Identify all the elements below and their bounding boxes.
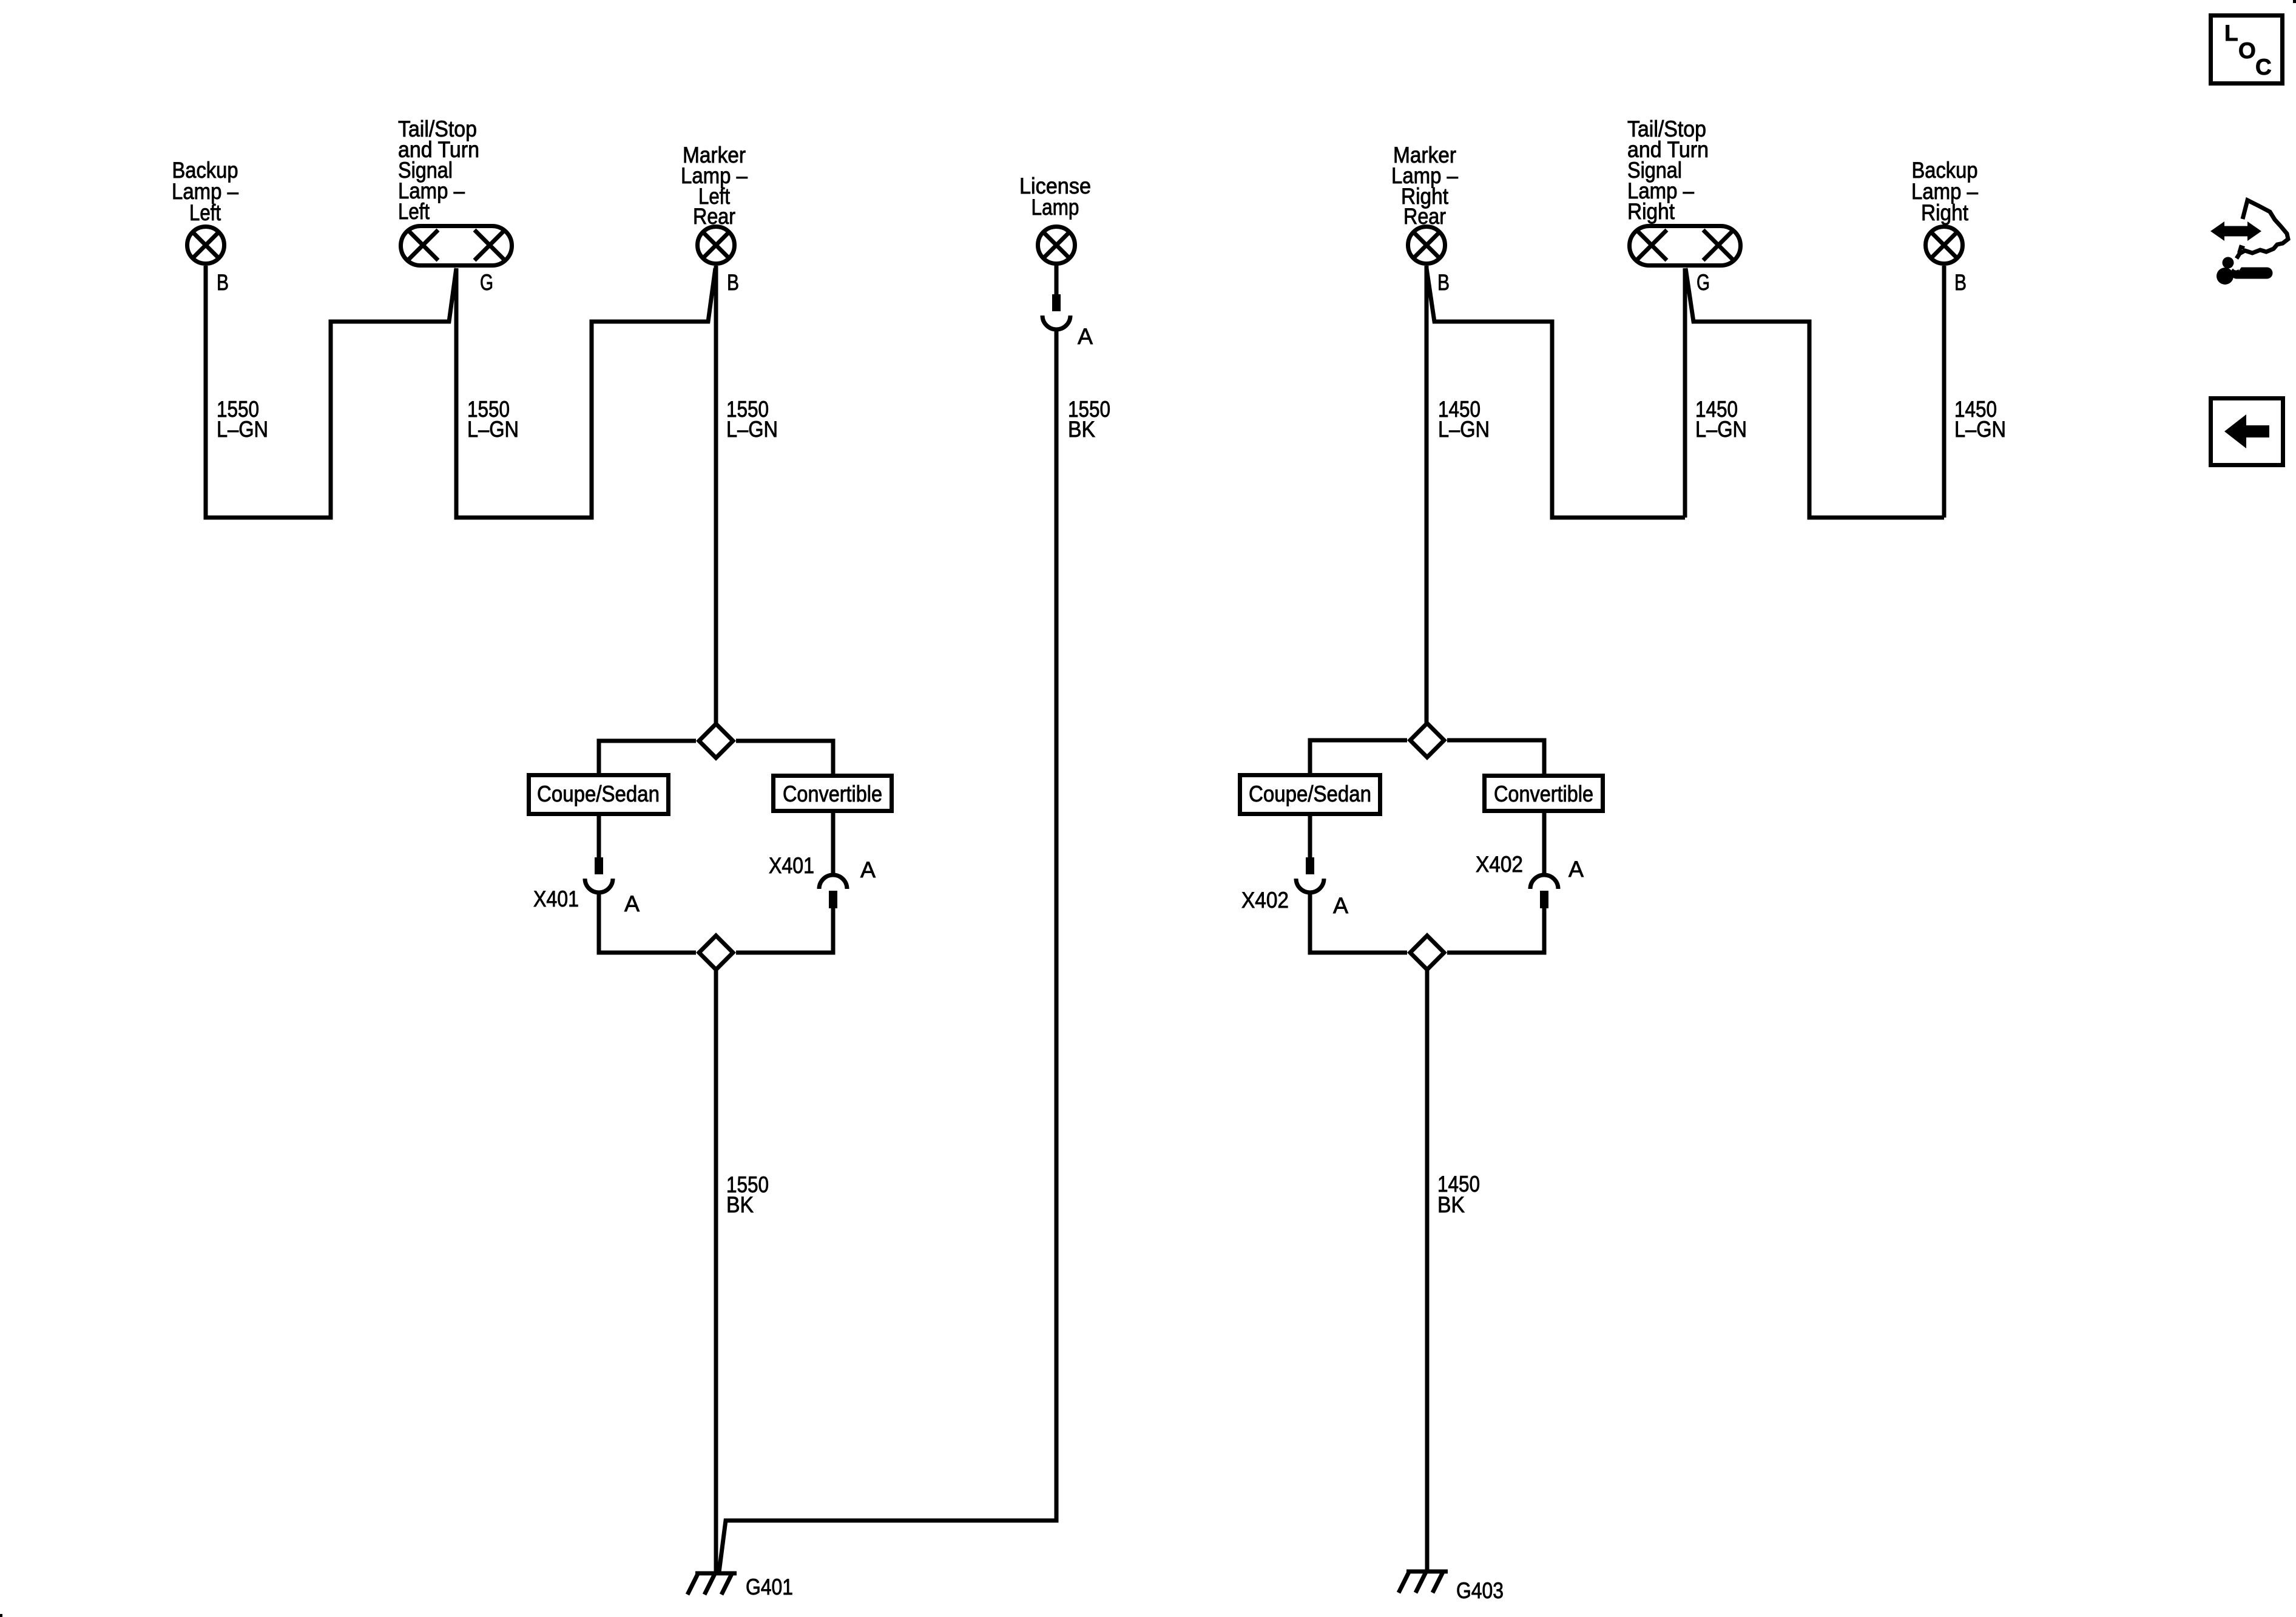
connector X402 terminal A (Convertible side) [1530, 875, 1558, 908]
svg-text:X401: X401 [769, 853, 814, 878]
svg-text:Lamp: Lamp [1032, 195, 1079, 220]
svg-text:G403: G403 [1456, 1578, 1504, 1603]
connector X401 terminal A (Coupe/Sedan side) [585, 857, 613, 893]
splice: top diamond (left group) [699, 724, 733, 758]
wire: X402 to bottom splice (right, convertible side) [1447, 908, 1544, 953]
splice: bottom diamond (left group) [699, 936, 733, 970]
wire: circuit 1550 L-GN from Tail/Stop Lamp-Left pin G to Marker Lamp pin B (step run) [456, 268, 715, 518]
branch option box: Coupe/Sedan (left) [529, 775, 669, 814]
svg-text:L: L [2224, 21, 2238, 46]
svg-text:A: A [1568, 857, 1584, 882]
svg-text:B: B [727, 270, 739, 295]
icon: LOC reference box [2211, 16, 2283, 84]
svg-text:B: B [1437, 270, 1450, 295]
wire: circuit 1550 BK from License Lamp pin A to ground G401 [719, 329, 1056, 1572]
svg-text:Coupe/Sedan: Coupe/Sedan [537, 781, 660, 806]
svg-text:Right: Right [1627, 199, 1675, 224]
lamp E3: Marker Lamp - Left Rear [698, 227, 735, 264]
label: Marker Lamp - Right Rear [1391, 143, 1458, 229]
value label: 1450 L-GN (backup right leg) [1954, 397, 2006, 442]
svg-text:Right: Right [1921, 200, 1969, 225]
label: Marker Lamp - Left Rear [681, 143, 748, 229]
svg-text:Convertible: Convertible [1494, 781, 1593, 806]
svg-text:Coupe/Sedan: Coupe/Sedan [1249, 781, 1371, 806]
label: Backup Lamp - Left [172, 158, 238, 225]
wire: circuit 1550 BK from bottom splice to ground G401 [714, 967, 718, 1573]
label: Tail/Stop and Turn Signal Lamp - Left [398, 116, 479, 224]
wire: splice to Coupe/Sedan branch (right) [1310, 740, 1407, 775]
svg-text:B: B [217, 270, 229, 295]
value label: 1450 L-GN (tail/stop right leg) [1695, 397, 1747, 442]
svg-text:L–GN: L–GN [1954, 417, 2006, 442]
wire: circuit 1550 L-GN from Marker Lamp-Left Rear pin B down to splice diamond [714, 266, 718, 726]
value label: 1550 L-GN (backup left leg) [217, 397, 268, 442]
lamp E1: Backup Lamp - Left [187, 227, 225, 264]
label: License Lamp [1019, 174, 1091, 220]
svg-text:A: A [1078, 324, 1093, 349]
svg-text:A: A [1333, 893, 1348, 918]
wire: X402 to bottom splice (right, coupe side) [1310, 893, 1407, 953]
splice: bottom diamond (right group) [1410, 936, 1444, 970]
wire: step run from Marker-Right pin B to Tail/Stop-Right pin G [1427, 268, 1685, 518]
wire: circuit 1450 L-GN Tail/Stop-Right pin G down leg [1683, 268, 1687, 518]
svg-text:B: B [1954, 270, 1967, 295]
value label: 1450 L-GN (marker right leg) [1438, 397, 1490, 442]
wire: Convertible box to connector X401 (left) [831, 813, 836, 876]
svg-text:Left: Left [398, 199, 430, 224]
svg-text:X402: X402 [1241, 888, 1289, 913]
lamp E4: License Lamp [1038, 227, 1075, 264]
wire: Coupe/Sedan box to connector X401 (left) [597, 816, 601, 859]
wire: circuit 1450 L-GN from Backup Lamp-Right pin B [1942, 266, 1947, 518]
svg-text:G: G [1697, 270, 1710, 295]
svg-text:O: O [2238, 38, 2256, 63]
svg-text:Convertible: Convertible [783, 781, 882, 806]
ground G403 [1399, 1571, 1448, 1593]
wire: splice to Coupe/Sedan branch (left) [599, 741, 696, 775]
icon: back-arrow box [2211, 399, 2283, 465]
svg-text:Rear: Rear [693, 204, 735, 229]
icon: component/connector view (double arrow, outline, wrench) [2210, 200, 2288, 285]
svg-text:X401: X401 [533, 886, 579, 911]
lamp E6: Tail/Stop and Turn Signal Lamp - Right [1630, 226, 1741, 266]
branch option box: Coupe/Sedan (right) [1240, 775, 1380, 814]
svg-text:G401: G401 [746, 1575, 793, 1599]
svg-text:C: C [2255, 55, 2272, 79]
mark: bottom-left corner artifact [0, 1614, 2, 1617]
ground G401 [687, 1573, 737, 1595]
branch option box: Convertible (right) [1485, 776, 1603, 811]
value label: 1550 L-GN (marker left leg) [726, 397, 778, 442]
mark: top-right corner artifact [2293, 0, 2296, 3]
svg-text:G: G [480, 270, 493, 295]
splice: top diamond (right group) [1410, 723, 1444, 757]
wire: X401 to bottom splice (left, convertible side) [736, 908, 833, 953]
svg-text:Left: Left [189, 200, 221, 225]
value label: 1550 L-GN (tail/stop left leg) [467, 397, 519, 442]
svg-text:X402: X402 [1476, 852, 1523, 877]
svg-text:BK: BK [1068, 417, 1095, 442]
svg-text:BK: BK [1437, 1192, 1465, 1217]
wire: step run from Tail/Stop-Right pin G to Backup-Right pin B [1686, 268, 1944, 518]
svg-text:L–GN: L–GN [726, 417, 778, 442]
lamp E2: Tail/Stop and Turn Signal Lamp - Left [401, 226, 512, 266]
inline connector, License Lamp pin A [1042, 294, 1070, 329]
wire: splice to Convertible branch (left) [736, 741, 833, 775]
connector X401 terminal A (Convertible side) [819, 875, 847, 908]
svg-text:A: A [624, 891, 640, 916]
svg-text:BK: BK [726, 1192, 754, 1217]
svg-text:A: A [860, 857, 876, 882]
svg-text:L–GN: L–GN [467, 417, 519, 442]
value label: 1550 BK (ground leg left) [726, 1172, 769, 1217]
branch option box: Convertible (left) [774, 776, 892, 811]
svg-text:L–GN: L–GN [1438, 417, 1490, 442]
wire: circuit 1450 BK from bottom splice to ground G403 [1425, 967, 1430, 1571]
wire: X401 to bottom splice (left, coupe side) [599, 893, 696, 953]
lamp E5: Marker Lamp - Right Rear [1408, 227, 1445, 264]
label: Backup Lamp - Right [1911, 158, 1978, 225]
wire: Convertible box to connector X402 (right) [1542, 813, 1547, 876]
svg-text:L–GN: L–GN [1695, 417, 1747, 442]
connector X402 terminal A (Coupe/Sedan side) [1296, 857, 1324, 893]
wire: Coupe/Sedan box to connector X402 (right) [1308, 816, 1312, 859]
wire: splice to Convertible branch (right) [1447, 740, 1544, 775]
wire: circuit 1550 L-GN from Backup Lamp-Left pin B to Tail/Stop Lamp pin G (step run) [206, 266, 456, 518]
wire: circuit 1450 L-GN from Marker Lamp-Right Rear pin B down to splice diamond [1425, 266, 1429, 726]
wire: License Lamp lead to inline connector [1055, 265, 1059, 295]
svg-text:Rear: Rear [1403, 204, 1446, 229]
label: Tail/Stop and Turn Signal Lamp - Right [1627, 116, 1709, 224]
svg-text:L–GN: L–GN [217, 417, 268, 442]
value label: 1450 BK (ground leg right) [1437, 1172, 1480, 1217]
lamp E7: Backup Lamp - Right [1926, 227, 1963, 264]
value label: 1550 BK (license leg) [1068, 397, 1110, 442]
